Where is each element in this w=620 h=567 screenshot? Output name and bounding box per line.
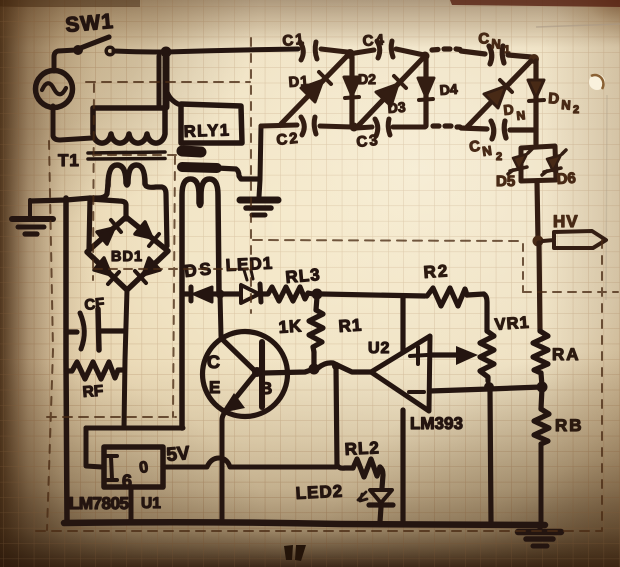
svg-text:T1: T1 [58, 151, 80, 170]
ground (middle) [240, 200, 278, 215]
diode D3 [358, 58, 423, 126]
svg-text:RL3: RL3 [285, 265, 322, 287]
label U1 pin I [106, 456, 117, 480]
svg-text:E: E [209, 378, 220, 397]
resistor RF [66, 362, 123, 379]
ring mark [589, 74, 605, 90]
resistor RB [534, 409, 549, 444]
bottom ground rail [64, 522, 545, 525]
svg-text:LM393: LM393 [410, 414, 463, 433]
svg-text:D: D [503, 101, 515, 118]
svg-text:R1: R1 [338, 315, 363, 336]
node output/RL2 junction [332, 362, 340, 370]
capacitor C4 [377, 41, 393, 58]
svg-text:RF: RF [82, 383, 104, 401]
wire C2 branch down to middle ground [259, 126, 261, 197]
op-amp plus sign [410, 347, 427, 364]
wire BD1 bottom to U1 rail [124, 290, 127, 428]
svg-text:D1: D1 [288, 74, 310, 91]
wire switch to AC source [54, 50, 76, 71]
wire to CN1 [461, 51, 485, 54]
wire top AC rail to C1 [166, 49, 298, 52]
op-amp minus sign [409, 390, 424, 394]
svg-text:N: N [516, 108, 526, 123]
relay RLY1 box [181, 104, 242, 143]
svg-text:C2: C2 [276, 130, 301, 149]
wire AC source to T1 primary [53, 106, 92, 140]
wire C4 left [355, 50, 374, 53]
wire C4 to D3 node [396, 49, 424, 55]
HV connector [543, 231, 606, 248]
wire C3 to D4 [393, 125, 425, 130]
wire CW bottom row left [261, 125, 297, 126]
ground (left) [12, 200, 53, 234]
wire CN1 to DN2 node [508, 55, 531, 57]
node top CW junction 3 [529, 54, 539, 64]
svg-text:C4: C4 [362, 31, 386, 50]
wire to CN2 [461, 128, 487, 129]
transformer T1 primary [93, 52, 166, 143]
photo edge dark strip top-right [450, 0, 620, 7]
wire HV node down to RA [539, 243, 540, 331]
dashed boundary right stub [523, 291, 618, 293]
wire sense line upper [400, 297, 405, 351]
svg-text:RLY1: RLY1 [184, 121, 231, 141]
wire DS to LED1 [212, 291, 239, 296]
svg-text:D3: D3 [387, 99, 406, 116]
node RL3/R1/R2 junction [312, 289, 323, 300]
svg-text:LED1: LED1 [225, 254, 273, 275]
wire switch to top rail [114, 51, 162, 52]
node collector junction [216, 290, 225, 299]
node top CW junction 2 [421, 52, 430, 61]
capacitor CN2 [491, 121, 506, 139]
diode DN2 [528, 61, 544, 144]
resistor RL2 [337, 459, 380, 477]
resistor RA [533, 331, 548, 373]
wire BD1 top to ground node [90, 199, 126, 219]
wire into U1 I pin [86, 428, 102, 467]
svg-text:2: 2 [573, 104, 579, 116]
wire plus input to VR1 wiper arrow [430, 346, 478, 365]
diode D2 [344, 57, 360, 125]
svg-text:C: C [207, 352, 220, 372]
capacitor CN1 [489, 46, 504, 64]
resistor RL3 [263, 287, 313, 301]
AC source [36, 71, 73, 108]
faint pencil line top-right [536, 24, 620, 27]
resistor R2 [427, 288, 467, 306]
wire DS anode rail [182, 291, 188, 296]
diode D5 [508, 149, 532, 174]
potentiometer VR1 [480, 331, 494, 381]
transistor Q1 emitter [221, 374, 255, 413]
node RA/RB junction [537, 382, 548, 393]
capacitor C1 [300, 42, 317, 60]
resistor R1 (1K) [309, 297, 323, 365]
dashed boundary inner box right [173, 156, 175, 417]
dashed boundary mid horizontal [94, 268, 248, 270]
svg-text:LM7805: LM7805 [69, 494, 128, 513]
wire collector up to DS node [220, 294, 221, 336]
wire U1 ground pin [129, 488, 134, 522]
dashed boundary left inner [93, 84, 94, 280]
svg-text:D4: D4 [439, 81, 458, 98]
relay contact bar 2 [182, 167, 217, 168]
svg-text:N: N [561, 97, 571, 113]
relay coil [182, 179, 219, 428]
svg-text:SW1: SW1 [64, 10, 114, 37]
svg-text:HV: HV [553, 212, 579, 231]
svg-text:B: B [260, 379, 272, 398]
wire D5D6 to HV node [537, 181, 538, 240]
wire dashes top row [432, 49, 460, 50]
svg-text:D2: D2 [358, 71, 376, 87]
capacitor C3 [375, 119, 390, 136]
svg-text:D5: D5 [496, 173, 515, 190]
diode D1 [281, 55, 348, 124]
wire RA to node [541, 373, 542, 386]
dashed boundary vertical mid [250, 38, 252, 313]
svg-text:CF: CF [84, 295, 106, 314]
LED2 [358, 490, 393, 505]
transformer T1 secondary [89, 165, 167, 250]
stray mark bottom [284, 545, 293, 560]
diode DS [191, 287, 212, 302]
wire sense line lower [400, 410, 405, 522]
wire RL2 to LED2 [380, 467, 383, 488]
node bottom CW junction 1 [350, 123, 359, 132]
dashed boundary outer left [47, 141, 53, 530]
svg-text:U1: U1 [141, 495, 161, 512]
wire junction to R2 [322, 294, 425, 296]
photo edge dark strip top-left [0, 0, 140, 7]
svg-text:R2: R2 [423, 261, 450, 282]
transistor Q1 collector [221, 338, 255, 371]
LED1 [241, 270, 261, 303]
relay contact bar 1 [182, 151, 201, 152]
bridge rectifier BD1 [87, 217, 168, 290]
wire C2 to D2 node [320, 126, 352, 127]
dashed boundary PSU top [86, 81, 250, 83]
capacitor C2 [301, 117, 316, 135]
svg-text:N: N [491, 36, 501, 52]
node top junction [161, 47, 172, 58]
diode D4 [418, 58, 434, 126]
wire CN2 to DN2 [510, 127, 535, 132]
node R1 bottom junction [309, 364, 320, 375]
relay RLY1 link from AC rail [166, 88, 181, 105]
svg-text:C3: C3 [356, 132, 381, 151]
capacitor CF [66, 309, 124, 350]
wire RB to ground rail [539, 444, 544, 523]
op-amp U2 [371, 336, 430, 411]
wire node to RB [541, 388, 542, 409]
dashed boundary multiplier bottom [253, 240, 522, 241]
transistor Q1 base bar [259, 342, 265, 407]
dashed boundary right side [601, 240, 603, 530]
wire C1 to D1/C4 node [321, 49, 347, 52]
svg-text:LED2: LED2 [295, 482, 343, 503]
wire op-amp output to base node [264, 363, 371, 373]
transistor Q1 circle [203, 332, 288, 417]
wire minus input to RA/RB node [430, 387, 541, 391]
wire U1 input rail [86, 426, 183, 431]
D5/D6 box [521, 146, 556, 181]
wire LED2 to ground rail [380, 507, 381, 522]
svg-text:RL2: RL2 [344, 438, 380, 459]
svg-text:RA: RA [552, 345, 581, 364]
wire emitter down to ground rail [222, 407, 231, 521]
dashed boundary inner box top [93, 154, 176, 156]
svg-text:D: D [548, 90, 560, 108]
wire left rail [66, 198, 67, 522]
svg-text:BD1: BD1 [111, 249, 143, 265]
regulator U1 box [104, 447, 163, 487]
dashed boundary bottom [36, 530, 602, 532]
svg-text:5V: 5V [166, 443, 191, 466]
dashed boundary HV drop [522, 244, 524, 292]
ground (bottom right) [518, 525, 561, 546]
transformer core [88, 152, 165, 159]
wire dashes bottom row [433, 126, 460, 127]
svg-text:D6: D6 [556, 170, 576, 188]
wire output node down to RL2 [336, 366, 337, 465]
node top CW junction 1 [345, 49, 355, 59]
svg-text:C1: C1 [282, 31, 307, 50]
node VR1 bottom junction [484, 382, 494, 392]
svg-text:VR1: VR1 [494, 314, 530, 334]
svg-text:2: 2 [496, 151, 502, 163]
wire left ground [31, 198, 90, 201]
svg-text:U2: U2 [368, 340, 390, 357]
diode D6 [542, 150, 566, 175]
node HV junction [533, 236, 544, 247]
svg-text:1K: 1K [278, 316, 303, 337]
switch SW1 [73, 37, 114, 55]
svg-text:C: C [478, 30, 490, 48]
dashed boundary inner box bottom [47, 416, 176, 418]
wire R2 to VR1 top [467, 294, 487, 331]
diode DN1 [467, 61, 531, 127]
faint pencil line right [606, 95, 607, 300]
wire VR1 bottom to ground rail [490, 389, 491, 522]
wire relay contact to middle ground [217, 168, 258, 179]
wire 5V from U1 O pin with hop [163, 458, 336, 467]
svg-text:RB: RB [555, 416, 584, 435]
wire C3 left [356, 127, 372, 128]
